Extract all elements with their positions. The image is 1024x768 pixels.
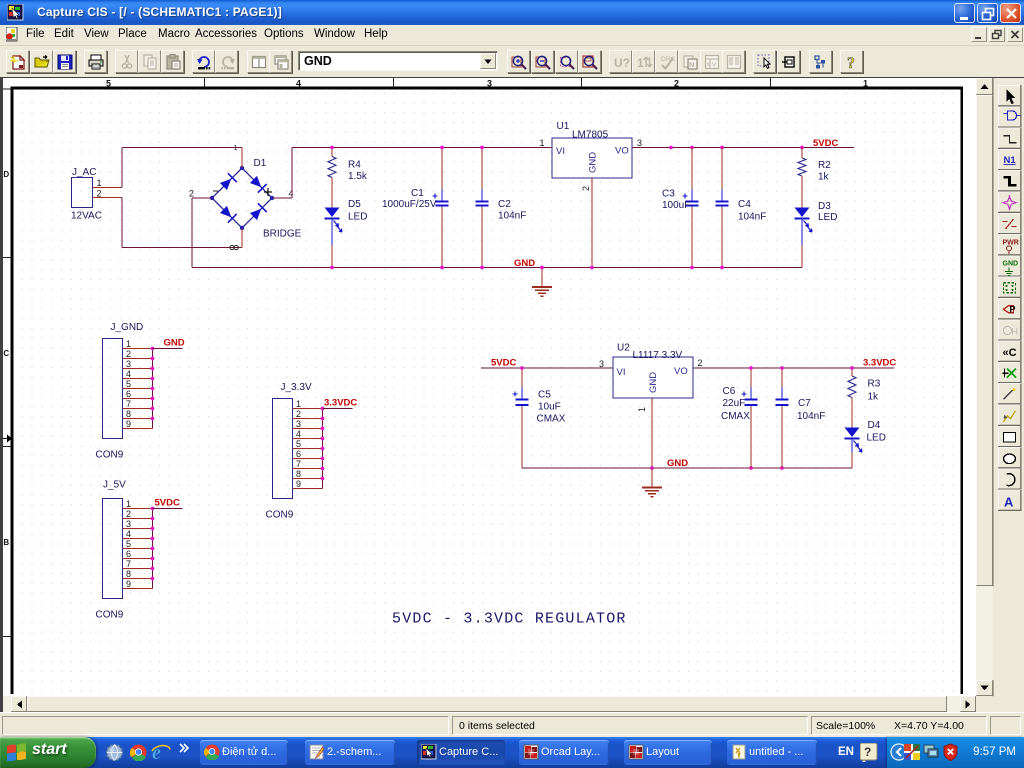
svg-text:D5: D5 [348, 199, 361, 210]
svg-text:2: 2 [126, 349, 131, 359]
svg-text:D: D [3, 170, 9, 179]
svg-text:R4: R4 [348, 160, 361, 171]
svg-text:J_5V: J_5V [103, 480, 126, 491]
svg-text:C1: C1 [411, 188, 424, 199]
svg-text:CON9: CON9 [96, 450, 124, 461]
svg-text:5VDC: 5VDC [155, 498, 180, 509]
svg-text:5VDC: 5VDC [491, 358, 516, 369]
svg-text:100uF: 100uF [662, 200, 690, 211]
svg-text:N: N [689, 60, 694, 69]
svg-text:4: 4 [126, 529, 131, 539]
svg-text:7: 7 [296, 459, 301, 469]
svg-text:4: 4 [289, 189, 294, 199]
svg-text:D4: D4 [868, 420, 881, 431]
svg-text:LED: LED [818, 212, 837, 223]
svg-text:3: 3 [637, 138, 642, 148]
svg-text:3: 3 [126, 359, 131, 369]
svg-text:1: 1 [540, 138, 545, 148]
svg-text:L1117 3.3V: L1117 3.3V [633, 350, 683, 361]
svg-text:CMAX: CMAX [721, 411, 750, 422]
svg-text:P: P [1010, 305, 1016, 315]
svg-text:104nF: 104nF [738, 212, 766, 223]
svg-text:H: H [1012, 327, 1019, 337]
svg-text:C: C [3, 349, 9, 358]
svg-text:J_3.3V: J_3.3V [281, 382, 312, 393]
svg-text:2: 2 [296, 409, 301, 419]
svg-text:9: 9 [126, 419, 131, 429]
svg-text:V: V [712, 62, 717, 69]
svg-text:1.5k: 1.5k [348, 171, 368, 182]
svg-text:6: 6 [296, 449, 301, 459]
svg-text:R2: R2 [818, 160, 831, 171]
svg-text:5VDC: 5VDC [813, 138, 838, 149]
svg-text:2: 2 [189, 189, 194, 199]
svg-text:22uF: 22uF [723, 398, 746, 409]
svg-text:LED: LED [348, 212, 367, 223]
svg-text:6: 6 [126, 389, 131, 399]
svg-text:9: 9 [296, 479, 301, 489]
svg-text:1: 1 [126, 339, 131, 349]
svg-text:?: ? [847, 55, 855, 71]
svg-text:?: ? [864, 745, 871, 759]
svg-text:1: 1 [637, 56, 644, 70]
svg-text:VO: VO [615, 146, 629, 157]
svg-text:8: 8 [296, 469, 301, 479]
svg-text:U1: U1 [557, 121, 570, 132]
svg-text:7: 7 [126, 399, 131, 409]
svg-text:3.3VDC: 3.3VDC [324, 398, 357, 409]
svg-text:1k: 1k [868, 392, 880, 403]
svg-text:1k: 1k [818, 172, 830, 183]
svg-text:A: A [1004, 494, 1014, 509]
svg-text:D3: D3 [818, 201, 831, 212]
svg-text:9: 9 [126, 579, 131, 589]
svg-text:C2: C2 [498, 199, 511, 210]
svg-text:LED: LED [867, 433, 886, 444]
svg-text:1: 1 [234, 145, 238, 152]
svg-text:5: 5 [126, 539, 131, 549]
svg-text:U?: U? [614, 56, 630, 70]
svg-text:GND: GND [164, 338, 185, 349]
svg-text:VI: VI [556, 146, 565, 157]
svg-text:1: 1 [637, 407, 647, 412]
svg-text:D1: D1 [254, 158, 267, 169]
svg-text:5: 5 [296, 439, 301, 449]
svg-text:3.3VDC: 3.3VDC [863, 358, 896, 369]
svg-text:2: 2 [126, 509, 131, 519]
svg-text:C5: C5 [538, 390, 551, 401]
svg-text:GND: GND [667, 458, 688, 469]
svg-text:U2: U2 [617, 343, 630, 354]
svg-text:GND: GND [648, 372, 659, 393]
svg-text:1000uF/25V: 1000uF/25V [382, 199, 437, 210]
svg-text:C4: C4 [738, 199, 751, 210]
svg-text:GND: GND [514, 258, 535, 269]
svg-text:GND: GND [588, 152, 599, 173]
svg-text:CMAX: CMAX [537, 414, 566, 425]
svg-text:BRIDGE: BRIDGE [263, 229, 302, 240]
svg-text:J_AC: J_AC [72, 167, 96, 178]
svg-text:8: 8 [126, 409, 131, 419]
svg-text:VO: VO [674, 366, 688, 377]
svg-text:5VDC - 3.3VDC REGULATOR: 5VDC - 3.3VDC REGULATOR [392, 611, 627, 628]
svg-text:C6: C6 [723, 386, 736, 397]
svg-text:X: X [706, 62, 711, 69]
svg-text:3: 3 [296, 419, 301, 429]
svg-text:12VAC: 12VAC [71, 211, 102, 222]
svg-text:3: 3 [126, 519, 131, 529]
svg-text:1: 1 [296, 399, 301, 409]
svg-text:«C: «C [1003, 347, 1017, 359]
svg-text:8: 8 [126, 569, 131, 579]
svg-text:104nF: 104nF [797, 411, 825, 422]
svg-text:J_GND: J_GND [111, 322, 144, 333]
svg-text:7: 7 [126, 559, 131, 569]
svg-text:10uF: 10uF [538, 402, 561, 413]
svg-text:LM7805: LM7805 [572, 130, 609, 141]
svg-text:2: 2 [698, 358, 703, 368]
svg-text:4: 4 [296, 429, 301, 439]
svg-text:C7: C7 [798, 398, 811, 409]
svg-text:2: 2 [581, 186, 591, 191]
svg-text:1: 1 [97, 178, 102, 188]
svg-text:1: 1 [126, 499, 131, 509]
svg-text:VI: VI [617, 367, 626, 378]
svg-text:6: 6 [126, 549, 131, 559]
svg-text:N1: N1 [1004, 155, 1017, 166]
svg-text:B: B [3, 538, 9, 547]
svg-text:104nF: 104nF [498, 211, 526, 222]
svg-text:CON9: CON9 [266, 510, 294, 521]
svg-text:CON9: CON9 [96, 610, 124, 621]
svg-text:5: 5 [126, 379, 131, 389]
svg-text:GND: GND [1003, 261, 1019, 268]
svg-text:C3: C3 [662, 189, 675, 200]
svg-text:R3: R3 [868, 379, 881, 390]
svg-text:3: 3 [599, 359, 604, 369]
svg-text:PWR: PWR [1003, 239, 1019, 246]
svg-text:4: 4 [126, 369, 131, 379]
svg-text:DRC: DRC [661, 56, 675, 63]
